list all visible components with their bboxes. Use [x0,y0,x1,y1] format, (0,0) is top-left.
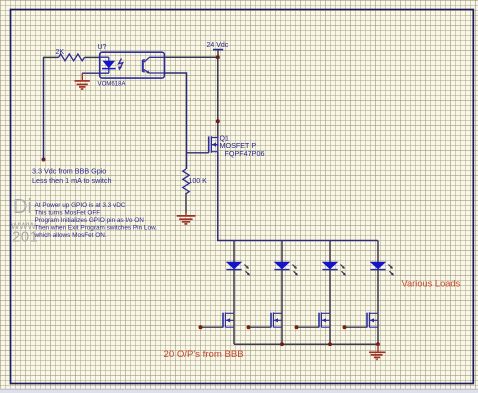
annotation Various Loads [402,279,461,289]
node 3.3 Vdc input endpoint [42,158,46,162]
resistor 100 K [183,169,207,194]
wire bottom bus [234,343,378,345]
transistor Q1 MOSFET P FQPF47P06 [209,136,265,158]
svg-text:U?: U? [98,44,107,51]
LED column 1 wire [233,241,235,314]
wire gate input 2 [247,325,272,329]
annotation 3.3 Vdc note [32,167,112,186]
wire phototransistor collector to 24V line [164,56,217,58]
LED D3 [322,262,346,276]
LED D4 [370,262,394,276]
wire LED cathode to ground [82,72,100,74]
annotation behaviour note [34,202,158,239]
annotation 20 O/P's from BBB [164,349,244,360]
wire Q1 drain to load bus [218,152,378,241]
svg-text:which allows MosFet ON.: which allows MosFet ON. [34,232,107,239]
svg-text:100 K: 100 K [189,178,208,185]
optocoupler U? VOM618A [98,44,165,88]
svg-text:Program Initializes GPIO pin a: Program Initializes GPIO pin as I/o ON [35,217,145,224]
wire gate branch to Q1 [187,152,209,154]
optocoupler photon arrow [118,59,123,71]
svg-text:At Power up GPIO is at 3.3 vDC: At Power up GPIO is at 3.3 vDC [35,202,126,209]
optocoupler internal LED [100,57,116,73]
wire gate input 3 [295,325,320,329]
junction bottom bus col4 [376,342,380,346]
LED column 2 wire [281,241,283,314]
LED column 4 wire [377,241,379,314]
junction on 24V line above Q1 [216,119,220,123]
LED D2 [274,262,298,276]
svg-text:Then when Exit Program switche: Then when Exit Program switches Pin Low. [35,224,158,231]
wire resistor to optocoupler [85,56,101,58]
svg-text:24 Vdc: 24 Vdc [207,42,229,49]
LED column 3 wire [329,241,331,314]
transistor Q3 [271,312,282,327]
resistor 2K [56,49,85,61]
transistor Q5 [367,312,378,327]
junction bottom bus col2 [280,342,284,346]
junction on 24V line at collector [216,55,220,59]
wire gate input 4 [343,325,368,329]
window bottom strip [0,389,478,393]
svg-text:FQPF47P06: FQPF47P06 [225,149,265,158]
wire Q5 source to bottom bus [377,313,379,344]
svg-text:Less then 1 mA to switch: Less then 1 mA to switch [32,176,112,185]
svg-text:20 O/P's from BBB: 20 O/P's from BBB [164,349,244,360]
power port 24 Vdc [207,42,229,58]
svg-text:This turns MosFet OFF: This turns MosFet OFF [35,209,101,216]
svg-text:VOM618A: VOM618A [98,81,127,88]
svg-text:3.3 Vdc from BBB Gpio: 3.3 Vdc from BBB Gpio [32,167,106,176]
wire gate input 1 [199,325,224,329]
wire 24V down to Q1 [217,57,219,137]
optocoupler phototransistor [143,57,165,73]
watermark [10,196,38,246]
wire Q4 source to bottom bus [329,313,331,344]
wire to resistor 2K [43,56,59,58]
wire 3.3V vertical [43,58,45,160]
ground (100K) [177,213,196,224]
svg-text:Various Loads: Various Loads [402,279,461,289]
svg-text:2K: 2K [56,49,65,56]
transistor Q2 [223,312,234,327]
wire Q3 source to bottom bus [281,313,283,344]
LED D1 [226,262,250,276]
wire resistor 100K to ground [185,193,187,213]
ground (bottom bus) [369,344,385,359]
svg-text:Di: Di [13,196,32,218]
transistor Q4 [319,312,330,327]
junction bottom bus col3 [328,342,332,346]
wire Q2 source to bottom bus [233,313,235,344]
wire phototransistor emitter to gate node [164,73,186,169]
ground (optocoupler LED) [75,73,90,89]
